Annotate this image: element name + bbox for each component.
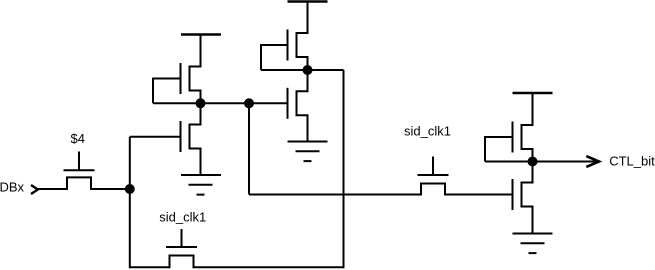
nmos load M3 gate loop — [261, 45, 288, 70]
nmos pass transistor sid_clk1 bottom channel — [170, 256, 194, 269]
nmos pass transistor sid_clk1 bottom gate lead — [181, 229, 183, 247]
wire pass transistor to node D — [91, 188, 130, 190]
nmos pass transistor $4 gate bar — [64, 169, 95, 171]
ground G1 — [181, 175, 221, 195]
nmos load M5 gate loop — [485, 137, 513, 162]
wire bottom left segment — [130, 266, 170, 268]
ground G2 — [288, 142, 328, 162]
nmos driver M6 gate bar — [512, 179, 514, 210]
power rail VDD bar right — [513, 92, 553, 94]
nmos pass transistor sid_clk1 middle gate lead — [432, 157, 434, 176]
power rail VDD bar left — [181, 33, 221, 35]
nmos load M1 gate loop — [153, 79, 181, 104]
wire node E horizontal — [485, 161, 599, 163]
nmos driver M2 body — [190, 103, 201, 175]
wire feedback vertical — [343, 70, 345, 268]
nmos load M1 gate bar — [180, 63, 182, 94]
svg-text:sid_clk1: sid_clk1 — [404, 123, 451, 138]
wire pass transistor to M6 gate — [445, 194, 513, 196]
output arrowhead — [586, 156, 599, 167]
svg-text:DBx: DBx — [0, 180, 25, 195]
nmos load M5 gate bar — [512, 122, 514, 153]
node E junction dot — [528, 157, 538, 167]
node C junction dot — [303, 65, 313, 75]
nmos load M3 body — [297, 2, 308, 71]
nmos load M3 gate bar — [287, 30, 289, 61]
nmos driver M4 gate bar — [287, 88, 289, 119]
nmos driver M6 body — [522, 162, 533, 234]
nmos pass transistor sid_clk1 middle channel — [421, 184, 445, 196]
node A junction dot — [196, 98, 206, 108]
node D junction dot — [125, 184, 135, 194]
wire node B down — [248, 103, 250, 194]
wire node A horizontal — [153, 102, 288, 104]
svg-text:sid_clk1: sid_clk1 — [159, 209, 206, 224]
wire node C horizontal — [261, 69, 344, 71]
node B junction dot — [244, 98, 254, 108]
nmos load M5 body — [522, 93, 533, 162]
wire node B row to pass transistor — [249, 194, 421, 196]
svg-text:CTL_bit: CTL_bit — [609, 154, 655, 169]
nmos pass transistor sid_clk1 middle gate bar — [418, 174, 449, 176]
nmos pass transistor sid_clk1 bottom gate bar — [166, 246, 197, 248]
nmos load M1 body — [190, 35, 201, 104]
nmos driver M4 body — [297, 70, 308, 142]
nmos pass transistor $4 channel — [67, 177, 91, 190]
nmos driver M2 gate bar — [180, 121, 182, 152]
wire node D to M2 gate — [130, 136, 181, 138]
ground G3 — [513, 234, 553, 254]
nmos pass transistor $4 gate lead — [78, 152, 80, 171]
wire node D vertical — [129, 137, 131, 268]
input port DBx chevron — [31, 185, 38, 194]
power rail VDD bar middle — [288, 0, 328, 2]
wire DBx to pass transistor — [38, 188, 67, 190]
svg-text:$4: $4 — [71, 131, 85, 146]
wire bottom right segment — [194, 266, 344, 268]
